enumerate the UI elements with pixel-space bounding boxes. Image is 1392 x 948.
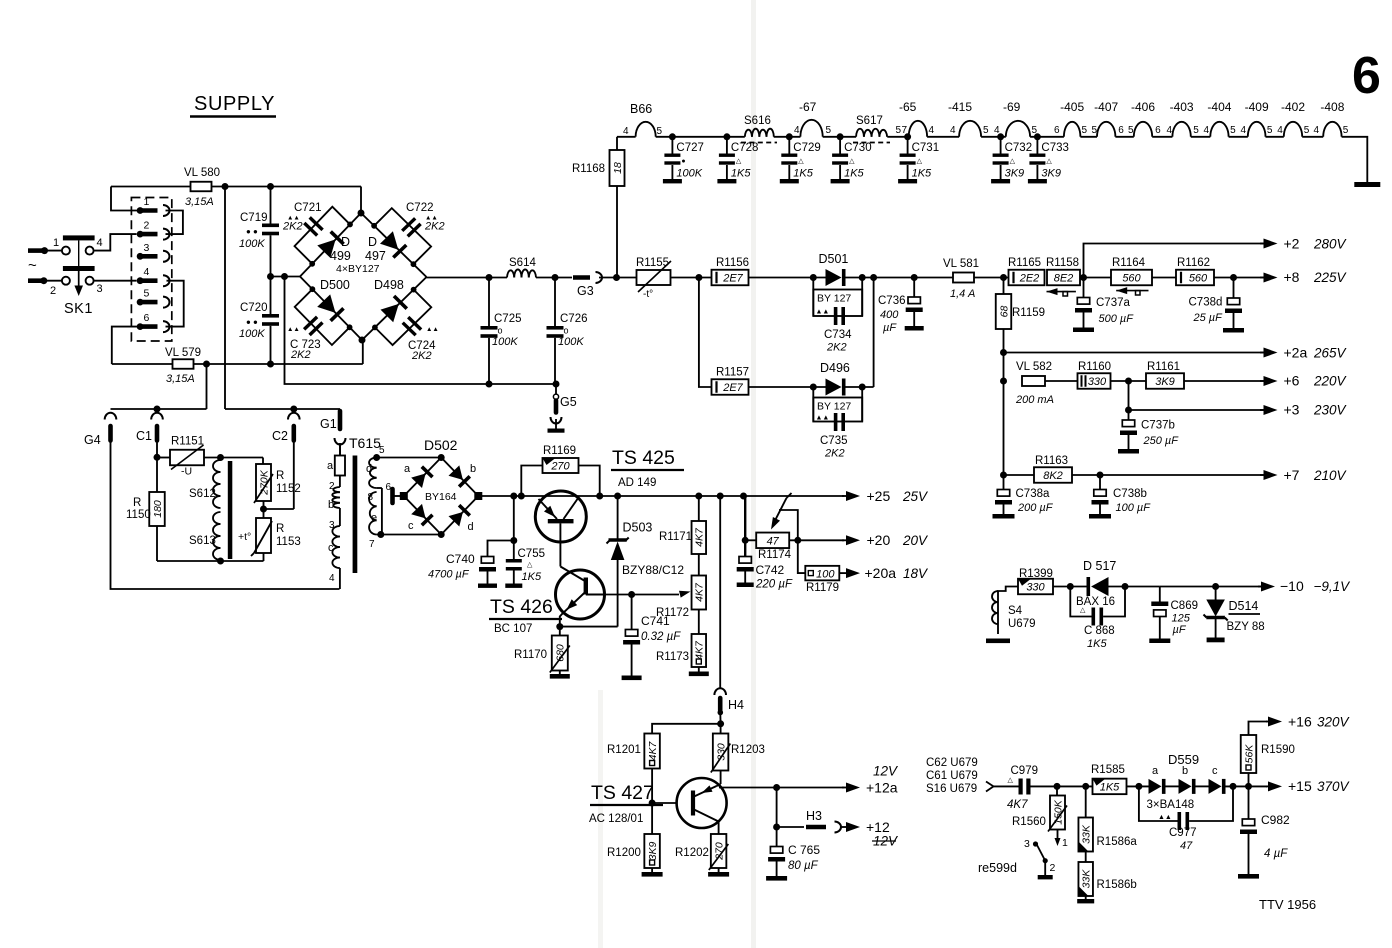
svg-text:S4: S4 [1008, 605, 1023, 617]
svg-text:D496: D496 [820, 361, 850, 375]
svg-text:a: a [404, 463, 411, 475]
svg-text:2K2: 2K2 [282, 221, 303, 233]
choke -403 [1170, 100, 1211, 137]
svg-text:6: 6 [1155, 125, 1161, 136]
svg-text:2K2: 2K2 [824, 448, 845, 460]
capacitor C735 with BY127 box [813, 387, 862, 460]
wire +20 rail [789, 537, 844, 544]
svg-text:~: ~ [28, 257, 37, 274]
svg-text:4K7: 4K7 [647, 741, 659, 761]
svg-text:330: 330 [1026, 582, 1045, 594]
capacitor C738d [1189, 278, 1245, 333]
svg-text:c: c [328, 542, 334, 554]
wire to -10 output [1216, 586, 1262, 588]
svg-text:R: R [276, 470, 284, 482]
svg-text:C977: C977 [1169, 827, 1197, 839]
svg-text:G4: G4 [84, 433, 101, 447]
svg-text:R: R [276, 523, 284, 535]
wire S616 to -67 [774, 125, 801, 140]
svg-text:BZY 88: BZY 88 [1227, 621, 1265, 633]
svg-text:B66: B66 [630, 102, 652, 116]
svg-text:320V: 320V [1317, 715, 1351, 730]
wire VL580 rail [111, 183, 361, 190]
svg-text:25 µF: 25 µF [1193, 312, 1224, 324]
wire control box top rail left [111, 406, 207, 413]
svg-text:R1202: R1202 [675, 847, 709, 859]
svg-text:R1560: R1560 [1012, 816, 1046, 828]
transformer T615 core [353, 456, 358, 574]
capacitor C734 with BY127 box [813, 278, 862, 354]
resistor R1179 [798, 540, 840, 594]
svg-text:S16 U679: S16 U679 [926, 783, 977, 795]
svg-text:re599d: re599d [978, 861, 1017, 875]
wire -69 to -405 [1030, 125, 1064, 140]
svg-text:100K: 100K [558, 336, 584, 348]
svg-text:+2: +2 [1284, 236, 1300, 252]
svg-text:R1159: R1159 [1012, 307, 1045, 319]
svg-text:1K5: 1K5 [912, 168, 932, 180]
svg-text:D503: D503 [623, 521, 653, 535]
resistor R1162 [1176, 257, 1214, 285]
capacitor C726 [547, 278, 588, 385]
svg-text:H3: H3 [806, 809, 822, 823]
svg-text:C721: C721 [294, 202, 322, 214]
svg-text:220 µF: 220 µF [755, 579, 793, 591]
svg-text:5: 5 [1082, 125, 1088, 136]
fuse VL581 [943, 258, 979, 300]
svg-text:5: 5 [826, 125, 832, 136]
svg-text:80 µF: 80 µF [788, 860, 819, 872]
capacitor C722 [374, 202, 444, 264]
svg-text:225V: 225V [1313, 270, 1348, 285]
svg-text:C2: C2 [272, 429, 288, 443]
svg-text:R1163: R1163 [1035, 455, 1068, 467]
svg-text:8: 8 [368, 492, 374, 503]
svg-text:+20: +20 [867, 532, 891, 548]
svg-text:47: 47 [767, 536, 780, 548]
svg-text:S613: S613 [189, 535, 216, 547]
capacitor C979 [1007, 765, 1038, 811]
svg-text:▲▲: ▲▲ [816, 309, 830, 316]
diode D559a [1149, 765, 1166, 794]
svg-text:C1: C1 [136, 429, 152, 443]
wire socket bridge pins 4-6 [166, 281, 184, 327]
svg-text:20V: 20V [902, 533, 929, 548]
output -10 -9,1V [1258, 578, 1351, 594]
capacitor C721 [282, 202, 350, 264]
svg-text:R: R [133, 497, 141, 509]
diode D499 [317, 232, 351, 263]
wire R1399 to D517 [1053, 583, 1088, 590]
label 4xBY127 [336, 263, 380, 275]
svg-text:2: 2 [1050, 862, 1056, 874]
svg-text:18: 18 [612, 162, 624, 174]
svg-text:a: a [1152, 765, 1159, 777]
wire VL579 junction down to control box [206, 364, 208, 409]
svg-text:6: 6 [1118, 125, 1124, 136]
wire D559 to +15 output [1226, 783, 1268, 790]
capacitor C725 [481, 278, 522, 385]
label TTV 1956 [1259, 897, 1316, 912]
svg-text:3: 3 [144, 242, 150, 254]
winding S613 [189, 512, 221, 560]
svg-text:265V: 265V [1313, 346, 1348, 361]
capacitor C736 [878, 278, 924, 335]
svg-text:SUPPLY: SUPPLY [194, 93, 275, 115]
svg-text:VL 582: VL 582 [1016, 361, 1052, 373]
mains input terminals [28, 237, 62, 297]
svg-text:D502: D502 [424, 437, 458, 453]
potentiometer R1152 [254, 464, 301, 503]
svg-text:a: a [327, 460, 334, 472]
svg-text:1152: 1152 [276, 483, 301, 495]
resistor R1161 [1146, 361, 1184, 389]
inductor S616 [741, 115, 777, 143]
svg-text:1K5: 1K5 [522, 571, 542, 583]
svg-text:R1160: R1160 [1078, 361, 1111, 373]
svg-text:5: 5 [657, 126, 663, 137]
wire SK1 pin4 to socket pin 2 [94, 234, 136, 251]
svg-text:e: e [371, 512, 377, 524]
resistor R1586a [1078, 786, 1137, 851]
svg-text:▲▲: ▲▲ [816, 415, 830, 422]
svg-text:D498: D498 [374, 278, 404, 292]
svg-text:R1585: R1585 [1091, 764, 1125, 776]
svg-text:R1156: R1156 [716, 257, 749, 269]
fuse VL579 [165, 347, 201, 385]
wire S617 to -65 [887, 125, 911, 140]
svg-text:680: 680 [555, 644, 567, 662]
svg-text:1: 1 [53, 237, 59, 249]
zener diode D503 [607, 496, 685, 627]
svg-text:0.32 µF: 0.32 µF [641, 631, 681, 643]
connector H3 [806, 809, 841, 833]
svg-text:500 µF: 500 µF [1099, 313, 1135, 325]
svg-text:33K: 33K [1081, 824, 1093, 844]
svg-text:VL 579: VL 579 [165, 347, 201, 359]
svg-text:4: 4 [97, 237, 103, 249]
svg-text:△: △ [1008, 777, 1014, 784]
wire +7 rail [1000, 472, 1265, 479]
wire C1 down [154, 444, 161, 492]
svg-text:1K5: 1K5 [731, 168, 751, 180]
choke B66 [617, 102, 663, 137]
svg-text:H4: H4 [728, 698, 744, 712]
svg-text:2K2: 2K2 [411, 350, 432, 362]
resistor R1163 [1034, 455, 1072, 483]
potentiometer R1172 [604, 576, 706, 620]
capacitor C733 [1028, 137, 1069, 184]
wire +12a rail [719, 784, 844, 791]
svg-text:1153: 1153 [276, 536, 301, 548]
svg-text:AD 149: AD 149 [618, 477, 656, 489]
svg-text:3K9: 3K9 [1005, 168, 1025, 180]
svg-text:BY 127: BY 127 [817, 293, 851, 305]
transformer T615 label [349, 435, 385, 456]
svg-text:2K2: 2K2 [290, 349, 311, 361]
svg-text:25V: 25V [902, 489, 929, 504]
svg-text:33K: 33K [1081, 869, 1093, 889]
wire R1157 to D496 [749, 384, 826, 391]
svg-text:+15: +15 [1288, 778, 1312, 794]
wire H4 node to R1201/R1203 [652, 720, 724, 733]
svg-text:560: 560 [1122, 273, 1141, 285]
svg-text:C982: C982 [1261, 813, 1290, 827]
connector G4 [84, 413, 116, 447]
svg-text:+12a: +12a [866, 780, 898, 796]
resistor R1585 [1091, 764, 1127, 794]
svg-text:b: b [470, 463, 476, 475]
svg-text:-402: -402 [1281, 100, 1305, 114]
fuse VL582 [1015, 361, 1054, 406]
svg-text:3×BA148: 3×BA148 [1147, 799, 1195, 811]
svg-text:D: D [368, 235, 377, 249]
svg-text:C733: C733 [1041, 142, 1069, 154]
wire secondary tap7 to D502 bottom [377, 534, 442, 536]
wire R1156 to D501 [749, 274, 826, 281]
svg-text:-404: -404 [1207, 100, 1231, 114]
svg-text:68: 68 [998, 306, 1010, 318]
svg-text:R1200: R1200 [607, 847, 641, 859]
svg-text:µF: µF [883, 322, 897, 334]
svg-text:4K7: 4K7 [694, 582, 706, 602]
svg-text:5: 5 [379, 445, 385, 456]
svg-text:4K7: 4K7 [1007, 799, 1028, 811]
svg-text:370V: 370V [1317, 779, 1351, 794]
wire +3 branch [1125, 381, 1265, 414]
choke -409 [1245, 100, 1284, 137]
svg-text:−9,1V: −9,1V [1314, 579, 1352, 594]
svg-text:BY164: BY164 [425, 491, 457, 503]
connector G5 [548, 384, 577, 433]
label TS425 AD149 [611, 447, 684, 489]
choke -406 [1131, 100, 1172, 137]
page number 6 [1352, 47, 1381, 105]
switch re599d [978, 838, 1056, 879]
svg-text:1K5: 1K5 [844, 168, 864, 180]
svg-text:△: △ [1010, 158, 1016, 165]
svg-text:C741: C741 [641, 614, 670, 628]
svg-text:5: 5 [1092, 125, 1098, 136]
svg-text:4: 4 [794, 125, 800, 136]
svg-text:150K: 150K [1052, 799, 1064, 825]
label BY164 [425, 491, 457, 503]
capacitor C728 [717, 137, 758, 184]
svg-text:G5: G5 [560, 395, 577, 409]
bridge D502 diamond [400, 454, 483, 538]
svg-text:180: 180 [152, 500, 164, 518]
svg-text:1K5: 1K5 [1100, 782, 1120, 794]
svg-text:4700 µF: 4700 µF [428, 569, 470, 581]
wire R1160 to R1161 [1111, 378, 1147, 385]
resistor R1173 [656, 634, 709, 676]
wire bridge top from VL580 rail [360, 187, 362, 214]
svg-text:C738d: C738d [1189, 297, 1223, 309]
svg-text:2: 2 [50, 285, 56, 297]
svg-text:-408: -408 [1320, 100, 1344, 114]
wire SK1 pin3 to socket pin 4 [94, 280, 136, 282]
svg-text:C722: C722 [406, 202, 434, 214]
wire lower branch from R1156 node [699, 278, 711, 388]
capacitor C731 [898, 137, 939, 184]
svg-text:R1171: R1171 [659, 531, 692, 543]
svg-text:R1155: R1155 [636, 257, 669, 269]
svg-text:C732: C732 [1005, 142, 1033, 154]
svg-text:D501: D501 [819, 252, 849, 266]
svg-text:△: △ [1080, 607, 1086, 614]
svg-text:C726: C726 [560, 313, 588, 325]
transistor TS425 (AD149) [535, 491, 586, 567]
resistor R1169 [521, 445, 599, 496]
svg-text:6: 6 [144, 312, 150, 324]
diode D502c [408, 504, 433, 532]
wire R1585 to D559 [1127, 783, 1149, 790]
svg-text:1: 1 [144, 196, 150, 208]
wire G3 to R1155 [599, 274, 636, 281]
resistor R1159 [996, 278, 1045, 353]
svg-text:230V: 230V [1313, 403, 1348, 418]
label D559 3xBA148 [1147, 752, 1200, 821]
svg-text:3: 3 [1024, 838, 1030, 850]
svg-text:4×BY127: 4×BY127 [336, 263, 380, 275]
resistor R1168 [572, 137, 625, 278]
svg-text:100K: 100K [676, 168, 702, 180]
svg-text:D 517: D 517 [1083, 559, 1116, 573]
svg-text:330: 330 [715, 743, 727, 761]
svg-text:-415: -415 [948, 100, 972, 114]
svg-text:4: 4 [1241, 125, 1247, 136]
svg-text:C61 U679: C61 U679 [926, 770, 978, 782]
svg-text:4: 4 [1277, 125, 1283, 136]
svg-text:S614: S614 [509, 257, 536, 269]
resistor R1201 [607, 734, 660, 769]
svg-text:BC 107: BC 107 [494, 623, 532, 635]
svg-text:3K9: 3K9 [647, 842, 659, 861]
diode D498 [374, 278, 407, 322]
svg-text:R1586b: R1586b [1097, 879, 1137, 891]
output +25 25V [842, 488, 929, 504]
wire D496 cathode up to rail [846, 278, 874, 391]
svg-text:280V: 280V [1313, 237, 1348, 252]
svg-text:C62 U679: C62 U679 [926, 757, 978, 769]
svg-text:-65: -65 [899, 100, 917, 114]
svg-text:−10: −10 [1280, 578, 1304, 594]
inductor S614 [507, 257, 536, 278]
svg-text:210V: 210V [1313, 468, 1348, 483]
zener diode D514 [1204, 587, 1265, 643]
varistor R1151 [157, 436, 204, 478]
svg-text:4: 4 [994, 125, 1000, 136]
wire VL581 to R1165 [974, 274, 1009, 281]
svg-text:R1168: R1168 [572, 163, 605, 175]
svg-text:o: o [564, 326, 569, 336]
svg-text:-69: -69 [1003, 100, 1021, 114]
output +16 320V [1266, 714, 1351, 730]
svg-text:4: 4 [329, 573, 335, 584]
svg-text:+8: +8 [1284, 269, 1300, 285]
svg-text:d: d [468, 521, 474, 533]
svg-text:C736: C736 [878, 295, 906, 307]
svg-text:3,15A: 3,15A [185, 196, 214, 208]
svg-text:△: △ [736, 158, 742, 165]
svg-text:270K: 270K [258, 469, 270, 496]
svg-text:5: 5 [1230, 125, 1236, 136]
svg-text:C755: C755 [518, 548, 546, 560]
svg-text:5: 5 [1267, 125, 1273, 136]
winding S612 [189, 460, 221, 508]
capacitor C737b [1118, 410, 1179, 454]
svg-text:5: 5 [1128, 125, 1134, 136]
svg-text:R1173: R1173 [656, 651, 689, 663]
output +20 20V [842, 532, 929, 548]
wire VL579 rail [112, 340, 363, 368]
svg-text:270: 270 [713, 842, 725, 861]
svg-text:3K9: 3K9 [1041, 168, 1061, 180]
pin numbers on choke chain [1082, 125, 1349, 136]
wire chain end to chassis [1342, 137, 1368, 182]
svg-text:2: 2 [144, 220, 150, 232]
svg-text:G1: G1 [320, 417, 337, 431]
svg-text:△: △ [527, 562, 533, 569]
resistor R1399 [1018, 568, 1053, 594]
output +2a 265V [1260, 345, 1348, 361]
connector G3 [573, 272, 602, 298]
svg-text:8E2: 8E2 [1054, 273, 1074, 285]
inductor S617 [853, 115, 890, 143]
resistor R1200 [607, 834, 663, 877]
svg-text:R1179: R1179 [806, 582, 839, 594]
svg-text:+16: +16 [1288, 714, 1312, 730]
wire -65 to -415 [927, 125, 959, 137]
svg-text:5: 5 [144, 288, 150, 300]
svg-text:220V: 220V [1313, 374, 1348, 389]
wire D501 node to VL581 [911, 274, 953, 281]
svg-text:12V: 12V [873, 764, 899, 779]
output +20a 18V [840, 565, 930, 581]
svg-text:200 µF: 200 µF [1017, 502, 1054, 514]
svg-text:6: 6 [1054, 125, 1060, 136]
wire R1159 node down to VL582 [1000, 353, 1007, 476]
svg-text:D: D [341, 235, 350, 249]
diode D502d [449, 505, 474, 533]
svg-text:7: 7 [902, 125, 908, 136]
svg-text:C729: C729 [793, 142, 821, 154]
svg-text:c: c [408, 520, 414, 532]
transistor TS426 (BC107) [556, 567, 605, 627]
wire D517 to C869 [1109, 583, 1160, 590]
transformer T615 primary winding [328, 476, 340, 590]
svg-text:4: 4 [623, 126, 629, 137]
voltage selector socket strip [131, 196, 171, 341]
diode D497 [365, 231, 406, 263]
ground chain end [1354, 182, 1380, 187]
resistor R1165 [1008, 257, 1045, 285]
svg-text:d: d [366, 463, 372, 475]
connector H4 [714, 496, 744, 724]
svg-text:C738a: C738a [1016, 488, 1050, 500]
svg-text:R1157: R1157 [716, 367, 749, 379]
capacitor C727 [663, 137, 704, 184]
transistor TS427 (AC128) [677, 771, 727, 835]
wire B66 to C727/C728 [656, 133, 745, 140]
svg-text:5: 5 [1304, 125, 1310, 136]
title SUPPLY [190, 93, 276, 117]
svg-text:1K5: 1K5 [1087, 638, 1107, 650]
svg-text:-403: -403 [1170, 100, 1194, 114]
output +12 12V [840, 819, 899, 849]
capacitor C738a [993, 475, 1054, 519]
output +15 370V [1266, 778, 1351, 794]
